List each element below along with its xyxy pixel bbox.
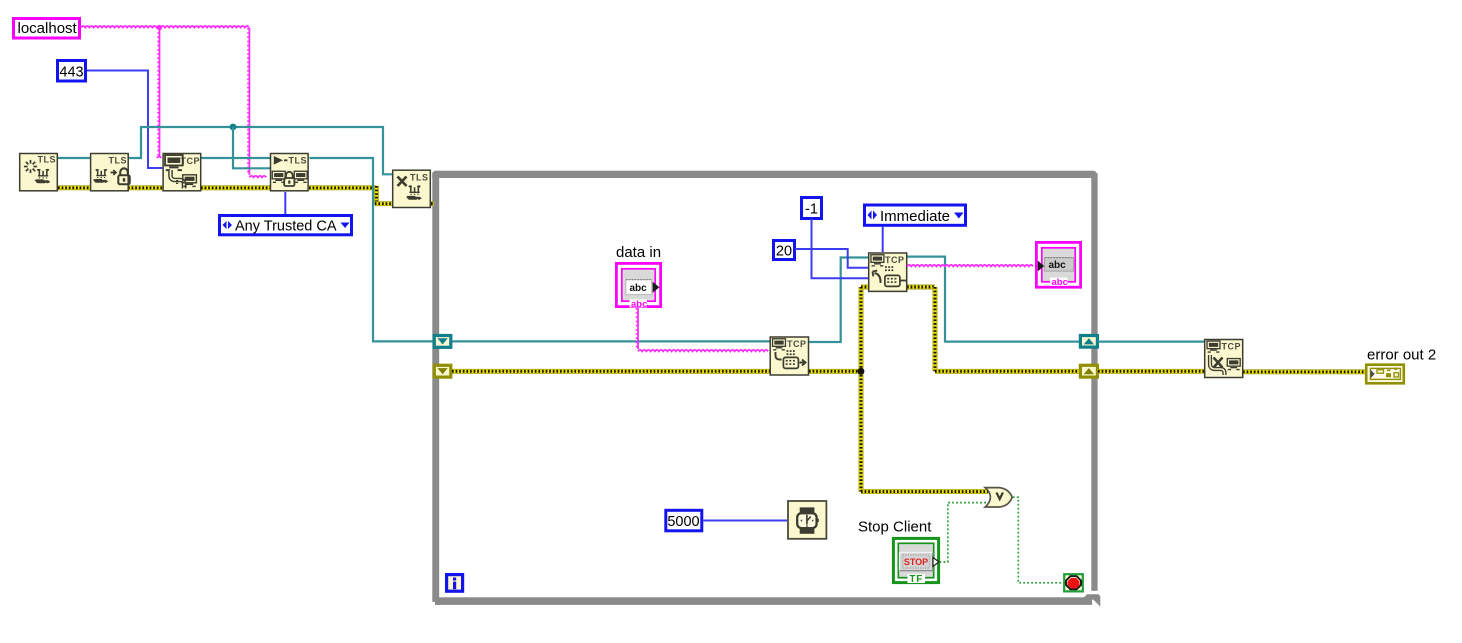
while loop border (432, 171, 1100, 607)
wire TLS context long run to delete (128, 127, 393, 174)
wire data in to TCP Write (637, 308, 639, 349)
svg-text:abc: abc (631, 299, 647, 310)
wire error junction up to TCP Read (859, 287, 864, 371)
wire Start TLS to Any Trusted CA (284, 192, 286, 214)
loop iteration terminal i (447, 575, 463, 592)
ring constant Any Trusted CA (220, 216, 352, 235)
svg-text:data in: data in (616, 244, 661, 261)
svg-text:TF: TF (909, 574, 923, 585)
svg-text:TCP: TCP (787, 339, 807, 349)
wire 5000 to Wait ms (704, 520, 788, 522)
wire TCP Read data to abc indicator (907, 265, 1033, 266)
wire error TCP Write to junction (809, 369, 861, 374)
wire tunnel to TCP Write connection (452, 340, 770, 342)
shift tunnel left teal (connection) (434, 336, 451, 348)
numeric constant 443 (58, 61, 86, 82)
svg-text:localhost: localhost (18, 20, 78, 37)
wire right tunnel to TCP Close (1098, 341, 1204, 343)
string control data in (616, 263, 660, 309)
shift tunnel right olive (error) (1080, 365, 1097, 377)
wire error tunnel to TCP Write (452, 369, 770, 374)
wire TCP Read connection out to right tunnel (907, 257, 1079, 342)
VI TCP Close Connection (1205, 340, 1243, 378)
svg-text:TCP: TCP (885, 255, 905, 265)
wire error chain between TLS VIs (58, 186, 434, 204)
VI TCP Read (869, 253, 907, 291)
numeric constant 20 (774, 241, 795, 260)
boolean control Stop Client (893, 538, 939, 585)
wire TCP Write to TCP Read connection (809, 258, 868, 343)
wire Or to loop condition (1013, 497, 1063, 583)
wire TLS context branch to Start TLS (233, 127, 270, 168)
svg-text:-1: -1 (805, 202, 818, 218)
svg-text:TLS: TLS (38, 155, 57, 165)
numeric constant -1 (802, 198, 822, 219)
wire 443 to TCP Open port (87, 71, 162, 169)
wire Start TLS connection into loop left tunnel (309, 158, 433, 341)
wire 20 to TCP Read bytes (795, 249, 868, 268)
wire error right tunnel to TCP Close (1098, 369, 1204, 374)
loop condition terminal (stop sign) (1064, 574, 1083, 591)
junction on localhost wire (157, 25, 162, 30)
wire error junction down to Or gate (859, 371, 864, 491)
VI Start TLS handshake (271, 154, 309, 191)
svg-text:Immediate: Immediate (880, 208, 950, 225)
wire localhost string (wavy pink) (81, 26, 266, 177)
svg-text:abc: abc (1052, 277, 1068, 288)
wire -1 to TCP Read timeout (812, 219, 869, 279)
svg-text:TLS: TLS (109, 156, 128, 166)
svg-text:Stop Client: Stop Client (858, 518, 932, 535)
svg-text:TCP: TCP (1222, 342, 1242, 352)
svg-text:Any Trusted CA: Any Trusted CA (235, 219, 337, 235)
VI TCP Open Connection (163, 154, 201, 191)
wire error TCP Read out down to right tunnel (907, 285, 935, 290)
svg-text:abc: abc (630, 283, 648, 294)
numeric constant 5000 (666, 510, 702, 531)
svg-text:error out 2: error out 2 (1367, 346, 1436, 363)
function Or (985, 488, 1012, 507)
indicator error out 2 (1366, 365, 1404, 384)
ring constant Immediate (865, 205, 966, 225)
svg-text:TLS: TLS (410, 173, 429, 183)
wire TLS context: new context to attach cert (58, 157, 90, 159)
VI TLS Context Add Private Key (91, 154, 130, 191)
svg-text:abc: abc (1049, 260, 1067, 271)
string indicator abc (1036, 242, 1080, 288)
error junction dot (858, 368, 865, 375)
svg-text:5000: 5000 (667, 514, 699, 530)
wire Immediate to TCP Read mode (882, 227, 884, 253)
VI New TLS Context (20, 154, 58, 191)
svg-text:STOP: STOP (904, 557, 928, 567)
string constant localhost (14, 19, 80, 39)
shift tunnel right teal (connection) (1080, 336, 1097, 348)
VI TCP Write (770, 337, 808, 375)
svg-text:TLS: TLS (289, 156, 308, 166)
wire TCP Open connection to Start TLS (201, 157, 270, 159)
wire error TCP Close to error out 2 (1243, 369, 1366, 374)
VI Wait (ms) (788, 501, 826, 539)
shift tunnel left olive (error) (434, 365, 451, 377)
wire Stop Client to Or (940, 503, 988, 562)
VI Delete TLS Context (393, 170, 431, 207)
junction TLS context branch (230, 124, 237, 131)
svg-text:443: 443 (59, 65, 83, 81)
svg-text:20: 20 (776, 244, 792, 260)
